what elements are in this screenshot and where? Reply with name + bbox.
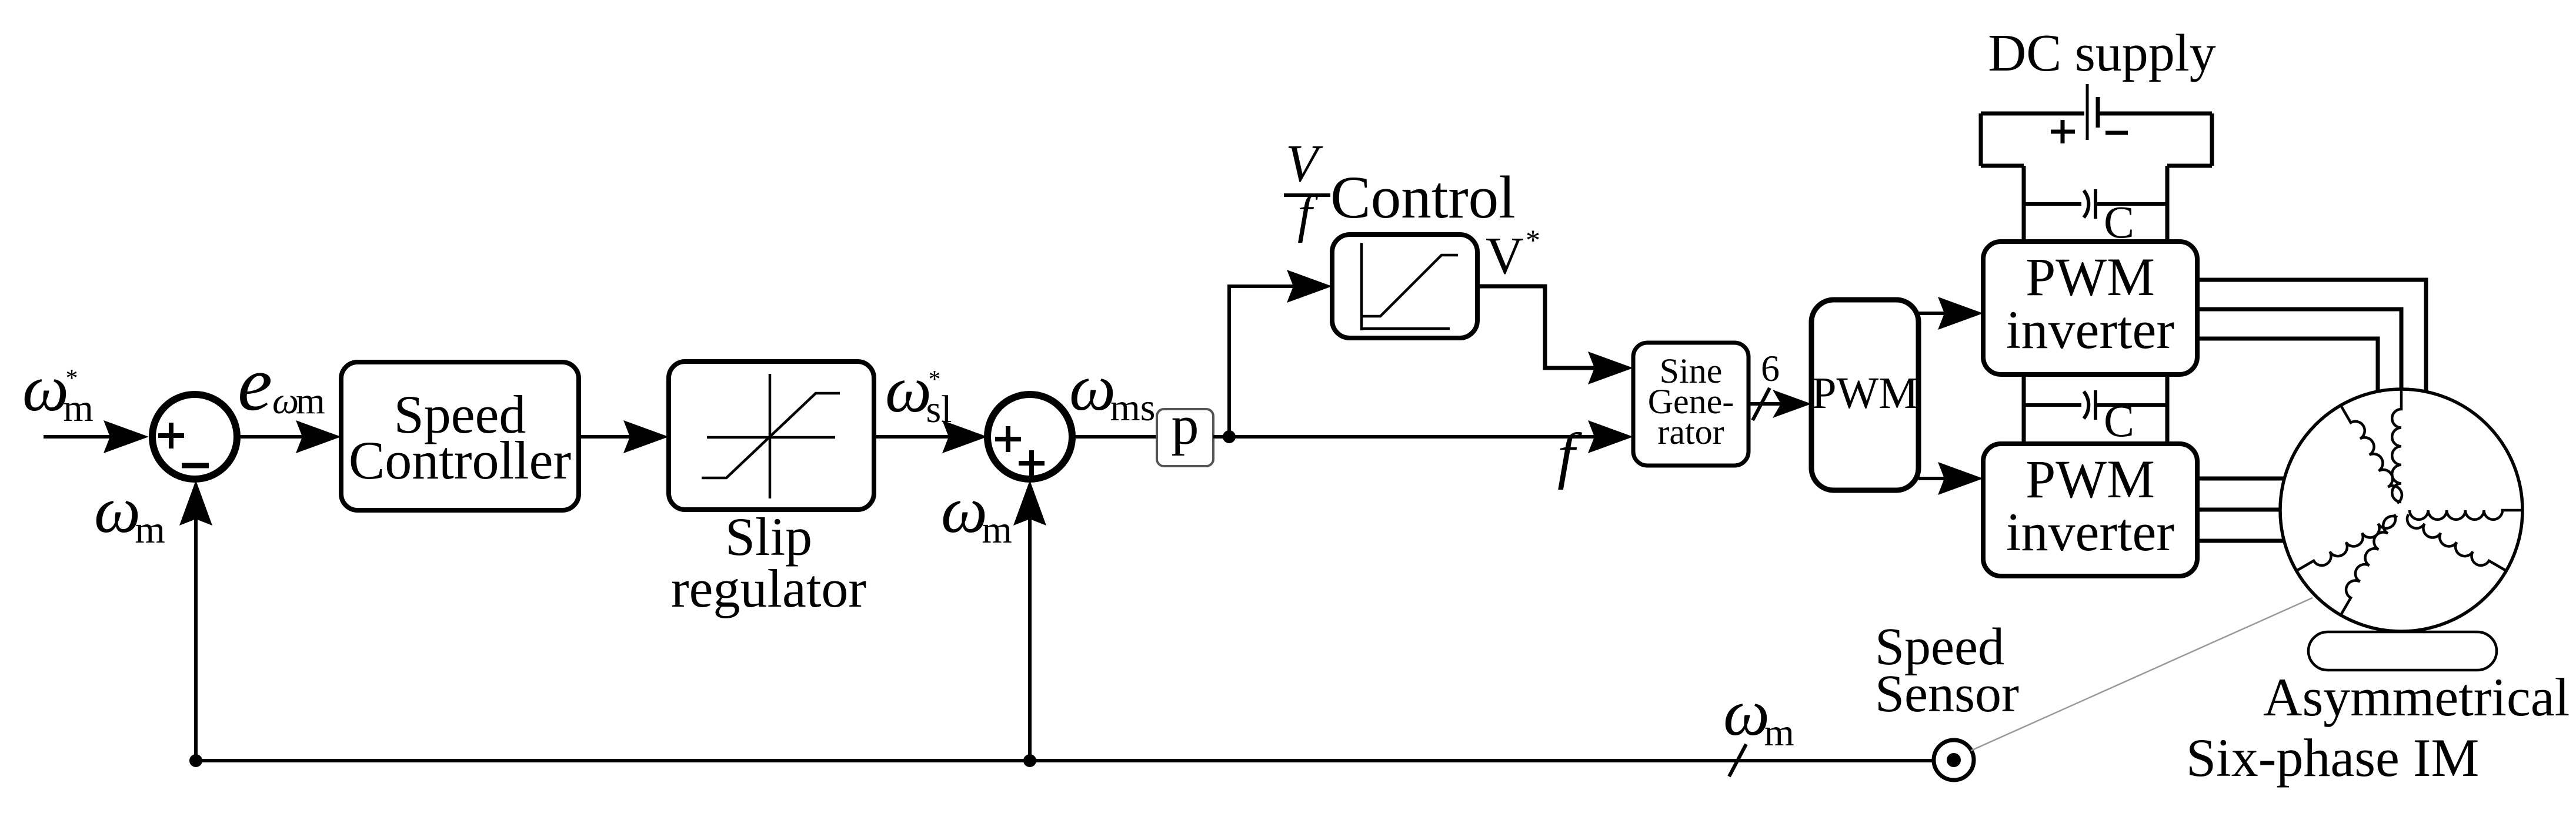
svg-text:rator: rator [1657, 413, 1724, 451]
svg-text:6: 6 [1761, 347, 1780, 389]
svg-text:C: C [2104, 395, 2134, 446]
svg-text:m: m [63, 387, 93, 430]
svg-text:p: p [1172, 395, 1199, 456]
svg-text:ω: ω [941, 474, 987, 547]
svg-text:Slip: Slip [725, 507, 812, 567]
svg-text:inverter: inverter [2006, 502, 2174, 562]
svg-text:C: C [2104, 196, 2134, 247]
svg-text:e: e [238, 340, 272, 427]
svg-text:ω: ω [885, 353, 932, 426]
svg-text:ω: ω [94, 474, 141, 547]
svg-text:regulator: regulator [671, 558, 866, 618]
svg-text:*: * [1526, 223, 1540, 256]
svg-text:V: V [1286, 135, 1323, 193]
svg-text:PWM: PWM [2026, 449, 2155, 509]
svg-text:Sensor: Sensor [1875, 665, 2019, 723]
svg-text:Controller: Controller [349, 430, 571, 490]
svg-text:ω: ω [22, 352, 69, 425]
svg-text:Control: Control [1330, 164, 1516, 231]
svg-text:PWM: PWM [1811, 369, 1918, 418]
svg-text:*: * [65, 365, 78, 392]
svg-text:m: m [1764, 711, 1794, 754]
svg-text:m: m [296, 380, 325, 421]
svg-text:DC supply: DC supply [1988, 24, 2216, 82]
svg-text:ms: ms [1110, 386, 1155, 429]
svg-text:ω: ω [1723, 677, 1770, 749]
svg-text:Six-phase IM: Six-phase IM [2186, 728, 2479, 788]
svg-text:sl: sl [926, 388, 952, 431]
svg-text:m: m [135, 508, 165, 551]
svg-text:ω: ω [272, 380, 299, 421]
svg-text:ω: ω [1069, 352, 1116, 424]
svg-text:*: * [928, 366, 940, 393]
svg-text:inverter: inverter [2006, 300, 2174, 360]
svg-text:V: V [1486, 227, 1524, 285]
svg-text:Asymmetrical: Asymmetrical [2263, 667, 2570, 727]
svg-text:m: m [982, 508, 1012, 551]
svg-text:PWM: PWM [2026, 247, 2155, 307]
